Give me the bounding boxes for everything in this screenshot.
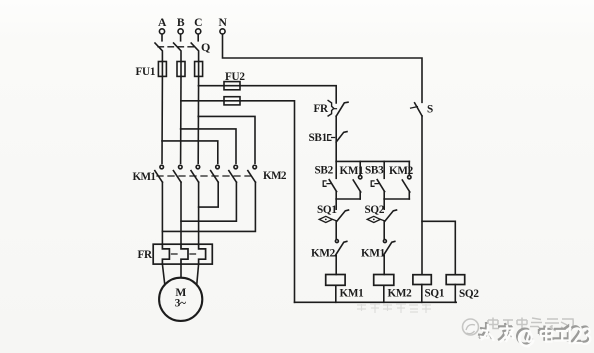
- wire contact3 to contact4 crossover: [199, 182, 219, 207]
- contactor KM1 main contact 1: [155, 165, 164, 182]
- wire N down and across to switch S: [223, 34, 423, 102]
- svg-text:N: N: [218, 16, 227, 29]
- coil SQ1: [413, 275, 445, 303]
- watermark faint center text: [357, 303, 431, 313]
- svg-text:C: C: [194, 16, 202, 29]
- switch Q pole A blade: [155, 43, 162, 62]
- wire B terminal to switch Q: [180, 34, 182, 41]
- wire FR to motor V: [180, 264, 182, 278]
- FR heater element 2: [181, 244, 188, 264]
- wire bottom return bus: [295, 301, 457, 303]
- coil SQ2: [446, 275, 479, 303]
- node N terminal: [218, 16, 227, 34]
- watermark logo circle: [463, 319, 479, 335]
- contact KM2 aux (NO): [402, 161, 411, 199]
- svg-text:SQ2: SQ2: [459, 288, 479, 300]
- wire FU2 lower to return rail: [240, 101, 295, 302]
- thermal relay FR heater box: [153, 244, 212, 264]
- wire C terminal to switch Q: [197, 34, 199, 41]
- motor M 3~: [159, 278, 202, 321]
- coil KM2: [374, 275, 412, 303]
- switch Q linkage dashed: [158, 46, 196, 48]
- svg-text:KM2: KM2: [311, 248, 336, 260]
- wire node to parallel branches top: [336, 160, 409, 162]
- FR heater element 1: [162, 244, 169, 264]
- wire phase C branch to FU2 upper: [198, 85, 224, 87]
- wire contact1 to contact6 crossover: [162, 182, 255, 231]
- pushbutton SB3 (NO): [371, 161, 384, 199]
- thermal contact FR (NC): [314, 101, 349, 117]
- switch S: [411, 103, 433, 116]
- wire FR to motor W: [197, 264, 199, 284]
- limit switch SQ1 (NC): [317, 199, 349, 239]
- wire FR contact to SB1: [335, 116, 337, 161]
- wire S to SQ1 box: [421, 116, 423, 275]
- contact KM1 aux (NO): [353, 161, 362, 199]
- wire FR to motor U: [162, 264, 164, 285]
- node A terminal: [158, 16, 167, 34]
- svg-text:KM1: KM1: [133, 171, 157, 183]
- svg-text:FR: FR: [314, 103, 330, 115]
- node B terminal: [177, 16, 185, 34]
- svg-text:FR: FR: [138, 249, 154, 261]
- svg-text:SQ1: SQ1: [317, 204, 337, 216]
- wire phase A branch to KM2 contact 4: [162, 141, 218, 163]
- wire phase B branch to KM2 contact 5: [181, 129, 236, 163]
- fuse FU2 upper: [224, 82, 240, 90]
- wire SB2/KM1 bottom join: [336, 198, 360, 200]
- fuse FU1 pole A: [158, 62, 166, 77]
- wire phase A to FR heater: [161, 231, 163, 244]
- wire phase C fuse to KM1 contact 3: [197, 76, 199, 163]
- svg-text:FU1: FU1: [136, 66, 156, 78]
- wire phase B to FR heater: [180, 221, 182, 244]
- coil KM1: [326, 275, 364, 303]
- contact KM1 interlock (NC): [361, 240, 395, 275]
- watermark light text 电工电气学习: [488, 318, 573, 333]
- svg-text:S: S: [427, 104, 433, 116]
- wire contact2 to contact5 crossover: [181, 182, 236, 221]
- contactor KM1 main contact 3: [191, 165, 200, 182]
- contact KM2 interlock (NC): [311, 240, 347, 275]
- contactor KM2 main contact 4: [211, 165, 220, 182]
- wire A terminal to switch Q: [161, 34, 163, 41]
- fuse FU1 pole C: [195, 62, 203, 77]
- node C terminal: [194, 16, 202, 34]
- pushbutton SB1 (NC): [309, 132, 348, 144]
- main contacts linkage dashed: [157, 175, 252, 177]
- fuse FU1 pole B: [177, 62, 185, 77]
- FR heater linkage dashes: [172, 253, 196, 255]
- svg-text:3~: 3~: [175, 298, 186, 310]
- wire phase C to FR heater: [198, 207, 200, 244]
- switch Q pole C blade: [191, 43, 198, 62]
- FR heater element 3: [199, 244, 206, 264]
- svg-text:KM2: KM2: [263, 170, 287, 182]
- wire phase B fuse to KM1 contact 2: [180, 76, 182, 163]
- svg-text:B: B: [177, 16, 185, 29]
- svg-text:SB3: SB3: [365, 165, 384, 177]
- contactor KM1 main contact 2: [173, 165, 182, 182]
- svg-text:SB2: SB2: [315, 165, 334, 177]
- contactor KM2 main contact 5: [229, 165, 238, 182]
- pushbutton SB2 (NO): [323, 161, 336, 199]
- contactor KM2 main contact 6: [248, 165, 257, 182]
- wire phase B branch to FU2 lower: [181, 100, 224, 102]
- svg-text:KM2: KM2: [388, 288, 413, 300]
- limit switch SQ2 (NC): [365, 199, 397, 239]
- svg-text:SB1: SB1: [309, 132, 328, 144]
- svg-text:KM1: KM1: [340, 288, 365, 300]
- svg-text:A: A: [158, 16, 167, 29]
- svg-text:KM1: KM1: [361, 248, 386, 260]
- fuse FU2 lower: [224, 97, 240, 105]
- switch Q pole B blade: [174, 43, 181, 62]
- svg-text:SQ1: SQ1: [425, 288, 445, 300]
- svg-text:SQ2: SQ2: [365, 204, 385, 216]
- wire phase A fuse to KM1 contact 1: [161, 76, 163, 163]
- wire branch to SQ2 box: [422, 221, 455, 274]
- wire FU2 upper to control rail: [240, 86, 336, 103]
- watermark dark text 头条@电工123: [478, 322, 590, 346]
- svg-text:Q: Q: [201, 40, 210, 54]
- wire phase C branch to KM2 contact 6: [198, 116, 255, 163]
- wire SB3/KM2 bottom join: [384, 198, 409, 200]
